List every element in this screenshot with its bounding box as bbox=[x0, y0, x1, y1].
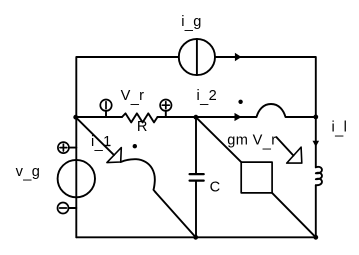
node bottom right bbox=[313, 235, 318, 240]
v_g plus terminal bbox=[58, 142, 69, 153]
svg-text:i_l: i_l bbox=[332, 120, 348, 138]
svg-text:gm V_r: gm V_r bbox=[227, 133, 276, 151]
svg-text:i_g: i_g bbox=[181, 14, 202, 32]
voltage source v_g bbox=[58, 160, 95, 197]
svg-text:v_g: v_g bbox=[16, 164, 41, 182]
i_1 bump curve bbox=[121, 159, 156, 192]
resistor R bbox=[122, 113, 158, 122]
wire i_2 with bump bbox=[196, 104, 316, 117]
gm wire lower diagonal bbox=[272, 193, 316, 237]
label i_1 bbox=[104, 145, 111, 146]
gm wire upper diagonal bbox=[196, 117, 241, 162]
dot near i_2 bbox=[238, 100, 242, 104]
dot near i_1 bbox=[133, 144, 137, 148]
dependent source gm V_r box bbox=[241, 162, 272, 193]
V_r plus marker bbox=[160, 100, 171, 111]
arrow i_l bbox=[313, 141, 320, 147]
inductor bbox=[316, 167, 322, 185]
capacitor wire upper bbox=[195, 117, 197, 173]
wire resistor to node i_2 bbox=[158, 116, 196, 118]
i_1 wire lower diagonal bbox=[156, 192, 196, 237]
capacitor C plates bbox=[190, 173, 204, 175]
node at left mid bbox=[73, 115, 78, 120]
wire below inductor bbox=[315, 186, 317, 238]
svg-text:R: R bbox=[137, 119, 148, 135]
V_r minus marker bbox=[100, 100, 111, 111]
capacitor wire lower bbox=[195, 182, 197, 238]
svg-text:i_2: i_2 bbox=[197, 88, 218, 106]
node i_2 bbox=[194, 115, 199, 120]
current source i_g bbox=[179, 39, 215, 75]
wire left vertical lower bbox=[75, 117, 77, 237]
node bottom middle bbox=[193, 235, 198, 240]
wire i_g to top-right corner bbox=[215, 57, 316, 117]
bottom wire bbox=[76, 236, 315, 238]
wire top-left to i_g bbox=[76, 57, 179, 117]
svg-text:C: C bbox=[210, 179, 221, 195]
gm open arrowhead bbox=[287, 147, 302, 163]
v_g minus terminal bbox=[58, 203, 69, 214]
node right mid bbox=[313, 115, 318, 120]
i_1 open arrowhead bbox=[107, 148, 121, 163]
arrow i_2 bbox=[235, 113, 242, 121]
gm arrow lead line bbox=[276, 137, 293, 156]
svg-text:i_1: i_1 bbox=[91, 134, 112, 152]
i_1 wire upper diagonal bbox=[76, 117, 114, 155]
arrow i_g bbox=[235, 53, 242, 61]
svg-text:V_r: V_r bbox=[121, 88, 145, 106]
wire mid left segment bbox=[76, 116, 122, 118]
wire right vertical bbox=[315, 117, 317, 167]
